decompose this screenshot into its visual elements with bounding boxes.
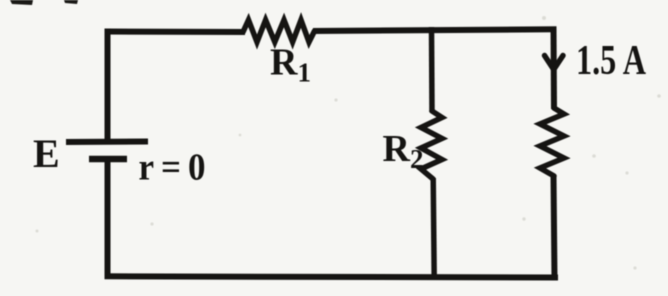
svg-text:1.5 A: 1.5 A <box>576 38 647 84</box>
scan artifact top-middle <box>64 0 78 4</box>
wire middle branch lower <box>433 178 434 278</box>
wire right branch upper with current direction <box>551 27 558 110</box>
wire bottom rail <box>105 276 559 277</box>
resistor R2 <box>421 111 442 179</box>
wire right branch lower <box>554 175 555 280</box>
arrow current 1.5 A down <box>545 56 564 70</box>
svg-text:r = 0: r = 0 <box>139 147 206 189</box>
wire middle branch upper <box>429 27 435 112</box>
battery E short plate <box>89 156 127 163</box>
svg-text:E: E <box>33 131 60 176</box>
resistor R1 <box>243 20 315 42</box>
wire left branch lower <box>105 159 111 278</box>
wire top rail right segment <box>313 29 557 31</box>
wire left branch upper <box>105 29 111 142</box>
battery E long plate <box>66 139 148 146</box>
wire top rail left segment <box>105 29 246 36</box>
resistor right branch (unlabelled) <box>540 108 564 176</box>
scan artifact top-left <box>10 0 33 5</box>
